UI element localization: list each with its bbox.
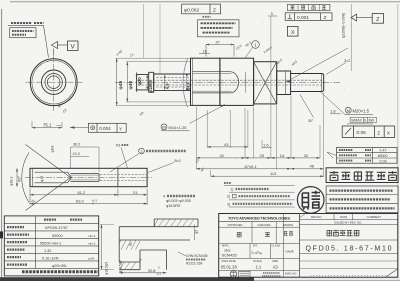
nose phi20 ring xyxy=(149,72,154,92)
detail profile xyxy=(119,219,198,270)
head B xyxy=(220,58,254,105)
svg-text:φ20×30L: φ20×30L xyxy=(52,264,67,268)
60 deg fan lines xyxy=(26,145,71,211)
svg-text:0.05: 0.05 xyxy=(357,130,367,136)
svg-text:32: 32 xyxy=(304,153,309,158)
shaft phi22 xyxy=(291,74,324,92)
collar xyxy=(277,71,291,95)
sheet top border xyxy=(10,1,400,3)
svg-text:3×2: 3×2 xyxy=(344,59,350,63)
empty rows xyxy=(300,260,398,262)
svg-text:WT.: WT. xyxy=(253,244,258,248)
svg-text:R1: R1 xyxy=(116,143,121,147)
second circle (phi42) xyxy=(32,60,76,104)
inner circle (phi18) xyxy=(45,74,62,91)
svg-text:10.2: 10.2 xyxy=(73,152,80,156)
svg-text:27: 27 xyxy=(216,40,220,44)
svg-text:TOYO ADVANCED TECHNOLOGIES: TOYO ADVANCED TECHNOLOGIES xyxy=(228,216,290,221)
nose phi18 tip xyxy=(137,75,149,90)
note chucking box xyxy=(10,28,36,38)
svg-text:1): 1) xyxy=(230,187,233,191)
M10x1.25 label xyxy=(161,124,167,130)
stamp kanji xyxy=(302,191,320,210)
svg-text:DRAWN: DRAWN xyxy=(283,223,293,227)
note box top center xyxy=(198,20,240,37)
WMAX small frame xyxy=(350,117,376,122)
material row xyxy=(250,214,284,278)
svg-text:0.09: 0.09 xyxy=(380,159,387,163)
vertical ext lines from top border xyxy=(144,4,161,74)
svg-text:21: 21 xyxy=(133,190,138,195)
svg-text:DWG.DATE: DWG.DATE xyxy=(222,259,236,263)
svg-text:Z: Z xyxy=(324,15,327,21)
svg-text:CHECKED: CHECKED xyxy=(257,223,270,227)
svg-text:φ40: φ40 xyxy=(128,81,133,90)
svg-text:φ18h5: φ18h5 xyxy=(148,80,153,93)
svg-text:V: V xyxy=(71,44,76,51)
svg-text:X: X xyxy=(291,30,295,36)
svg-text:B×2: B×2 xyxy=(175,159,182,163)
centerline main xyxy=(115,81,340,83)
row3 67+-0.1 / 46 xyxy=(196,168,323,170)
svg-text:M10×1.25: M10×1.25 xyxy=(169,125,188,130)
svg-text:30.2: 30.2 xyxy=(73,143,80,147)
middle circle (phi24) xyxy=(42,70,66,94)
svg-text:M: M xyxy=(347,108,350,113)
datum V box xyxy=(68,41,79,51)
leader to center hole xyxy=(286,48,349,82)
frame phi0.002 Z xyxy=(182,4,221,14)
svg-text:APPROVED: APPROVED xyxy=(228,223,243,227)
row phi20x30L xyxy=(7,264,27,266)
svg-text:63.2: 63.2 xyxy=(76,199,85,204)
svg-text:3): 3) xyxy=(227,202,230,206)
svg-text:φ18.3: φ18.3 xyxy=(10,177,14,186)
header row xyxy=(44,219,82,221)
svg-text:SIZE: SIZE xyxy=(272,259,278,263)
dim verticals left (phi45/phi40/phi20/phi18h5/6.8/phi13) xyxy=(116,58,118,105)
svg-text:05.01.28: 05.01.28 xyxy=(221,264,238,269)
leader arrow from frame to circle view xyxy=(70,127,88,129)
tiny note under frame xyxy=(203,16,211,18)
approved headers row xyxy=(219,226,300,228)
svg-text:φ0.003~φ0.005: φ0.003~φ0.005 xyxy=(166,199,191,203)
svg-text:min-1: min-1 xyxy=(88,234,96,238)
wheel arc phantom xyxy=(183,59,188,108)
svg-text:ISSUED BY REV. NO.: ISSUED BY REV. NO. xyxy=(334,220,362,224)
right notes box 3 rows xyxy=(326,186,398,213)
svg-text:61.2: 61.2 xyxy=(78,190,87,195)
fan arc xyxy=(22,153,29,203)
left edge black mark xyxy=(0,231,3,238)
circled 1 xyxy=(252,41,260,49)
hatch lower xyxy=(119,240,140,270)
svg-text:M: M xyxy=(162,125,165,130)
nose phi18h5 body xyxy=(154,74,191,91)
divider at 117.9 xyxy=(117,168,119,186)
svg-text:3MI: 3MI xyxy=(368,118,374,122)
dim 20.8 xyxy=(119,272,166,274)
label (2) nejimen xyxy=(139,148,145,154)
svg-text:φ13: φ13 xyxy=(40,176,44,182)
phi45 ext bottom xyxy=(116,104,191,106)
main vertical divider xyxy=(299,214,301,278)
dim 21 xyxy=(118,194,147,196)
head bore M24 thread xyxy=(193,72,230,93)
svg-text:φ18.5RS: φ18.5RS xyxy=(166,204,181,208)
hatch top xyxy=(154,219,194,227)
svg-text:CHN:SCM435: CHN:SCM435 xyxy=(186,254,208,258)
datum V flag triangle xyxy=(52,42,58,49)
axial hole dashed right part xyxy=(100,174,147,180)
body rect xyxy=(30,168,147,186)
svg-text:φ0.002: φ0.002 xyxy=(184,8,199,14)
phi22 extension line up xyxy=(350,4,352,71)
scan speckles xyxy=(26,21,345,268)
svg-text:NAME: NAME xyxy=(286,250,294,254)
runout frame 0.05 Z X xyxy=(342,126,395,137)
counterbore xyxy=(35,172,68,183)
svg-text:4: 4 xyxy=(163,194,165,198)
leader from balance note to circle xyxy=(44,26,49,58)
svg-text:Z: Z xyxy=(377,130,380,136)
svg-text:14: 14 xyxy=(280,153,285,158)
svg-text:DWG.NO.: DWG.NO. xyxy=(285,272,297,276)
head A phi45 section xyxy=(191,58,220,105)
svg-text:Y: Y xyxy=(119,126,122,131)
bottom dark scan band xyxy=(0,277,254,281)
frame perp 0.001 Z xyxy=(285,13,332,21)
svg-text:un/N: un/N xyxy=(88,256,94,260)
svg-text:10: 10 xyxy=(203,49,207,53)
row 1.32 xyxy=(7,249,25,251)
svg-text:6.8: 6.8 xyxy=(164,83,169,89)
svg-text:67±0.1: 67±0.1 xyxy=(245,164,258,169)
svg-text:30°: 30° xyxy=(308,119,314,123)
svg-text:SCALE: SCALE xyxy=(253,259,262,263)
svg-text:1.6: 1.6 xyxy=(263,142,269,147)
header tiny xyxy=(224,182,231,184)
svg-text:55000 min-1: 55000 min-1 xyxy=(40,241,61,245)
svg-text:φ2: φ2 xyxy=(195,230,199,234)
left vertical dim line xyxy=(101,225,103,270)
bottom stamps xyxy=(230,271,237,278)
row 50000 xyxy=(7,234,29,236)
X cross box xyxy=(254,62,277,104)
svg-text:42: 42 xyxy=(220,153,225,158)
svg-text:5: 5 xyxy=(271,12,273,16)
svg-text:25: 25 xyxy=(260,153,265,158)
svg-text:113: 113 xyxy=(270,171,277,176)
outer circle (phi45) xyxy=(30,59,77,106)
svg-text:φ22h6(−0.008): φ22h6(−0.008) xyxy=(342,12,346,38)
svg-text:1.32: 1.32 xyxy=(44,249,51,253)
row1 41 / 1.6 xyxy=(207,146,271,149)
row2 42 25 14 32 xyxy=(196,157,320,159)
phi40 extension line xyxy=(126,62,191,102)
important safety part box xyxy=(326,168,398,183)
svg-text:Z: Z xyxy=(213,8,216,14)
svg-text:φ20: φ20 xyxy=(137,77,142,86)
kanji: important safety parts xyxy=(330,171,339,180)
header box 4-kanji top right xyxy=(287,4,330,10)
svg-text:20.8: 20.8 xyxy=(148,269,155,273)
circle view centerlines xyxy=(53,54,55,112)
concentricity frame 0.004 Y xyxy=(88,123,126,132)
svg-text:KPD05-37/57: KPD05-37/57 xyxy=(45,226,68,230)
phi45 extension line top xyxy=(116,57,191,59)
sheet left border xyxy=(1,9,3,277)
leader from left into mass table xyxy=(327,152,337,158)
leaders shaft to M20 label xyxy=(320,92,345,115)
svg-text:φ8.8: φ8.8 xyxy=(51,145,55,152)
svg-text:48000: 48000 xyxy=(378,154,388,158)
phi6.8 axial hole dashed xyxy=(138,80,323,85)
svg-text:0.47: 0.47 xyxy=(380,149,387,153)
issued row xyxy=(300,223,398,225)
M20x1.5 label xyxy=(345,107,351,113)
svg-text:M20×1.5: M20×1.5 xyxy=(353,108,370,113)
row 55000 xyxy=(7,241,27,243)
svg-text:0.47kg: 0.47kg xyxy=(252,250,263,255)
svg-text:WMAX: WMAX xyxy=(351,118,362,122)
X datum box xyxy=(287,26,298,36)
svg-text:75.1: 75.1 xyxy=(43,123,52,128)
svg-text:MATL.: MATL. xyxy=(222,244,230,248)
purchase stamp circle xyxy=(297,187,324,214)
stamps row xyxy=(219,243,300,245)
phi2 dim right xyxy=(194,225,196,241)
svg-text:2: 2 xyxy=(140,150,142,154)
svg-text:0.001: 0.001 xyxy=(297,15,309,21)
svg-text:Rz211-269: Rz211-269 xyxy=(186,262,202,266)
thread M10 zone xyxy=(71,174,100,182)
row WL type xyxy=(7,226,24,228)
mass table xyxy=(337,147,398,163)
svg-text:min-1: min-1 xyxy=(88,241,96,245)
svg-text:2): 2) xyxy=(227,195,230,199)
dim 61.2 xyxy=(30,194,118,196)
bore circle (phi13) xyxy=(47,76,60,89)
row4 113 xyxy=(211,175,324,177)
left: company row xyxy=(219,221,300,223)
svg-text:5: 5 xyxy=(140,258,142,262)
svg-text:0.004: 0.004 xyxy=(99,126,111,131)
row 0.16 xyxy=(7,256,21,258)
ext verticals xyxy=(196,16,323,177)
sheet right border xyxy=(397,4,399,277)
note balance position text xyxy=(11,22,44,24)
right: rev header row xyxy=(300,219,398,221)
svg-text:COMMENT: COMMENT xyxy=(367,215,382,219)
svg-text:50000: 50000 xyxy=(52,234,63,238)
svg-text:φ45: φ45 xyxy=(118,81,123,90)
bottom note row xyxy=(22,270,99,273)
svg-text:REV.NO.: REV.NO. xyxy=(311,215,322,219)
left face chamfer line xyxy=(31,168,33,186)
svg-text:-0.1: -0.1 xyxy=(157,272,162,276)
svg-text:6: 6 xyxy=(364,118,366,122)
title kanji row xyxy=(300,239,398,241)
centerline xyxy=(25,177,152,179)
svg-text:CLASS: CLASS xyxy=(272,244,281,248)
svg-text:QFD05. 18-67-M10: QFD05. 18-67-M10 xyxy=(306,245,392,252)
leader texts right xyxy=(178,252,186,256)
svg-text:46: 46 xyxy=(310,164,315,169)
svg-text:DATE: DATE xyxy=(340,215,347,219)
datum Z flag xyxy=(351,14,356,21)
svg-text:SCM435: SCM435 xyxy=(222,253,237,258)
svg-text:0.16 un/N: 0.16 un/N xyxy=(42,256,59,260)
dim 63.2 xyxy=(30,189,147,206)
svg-text:φ13: φ13 xyxy=(186,82,191,90)
svg-text:1.8: 1.8 xyxy=(331,110,336,114)
svg-text:φ18.5js5: φ18.5js5 xyxy=(105,262,109,275)
phi13 dashed bore in nose xyxy=(156,78,190,88)
svg-text:A3: A3 xyxy=(273,264,279,269)
